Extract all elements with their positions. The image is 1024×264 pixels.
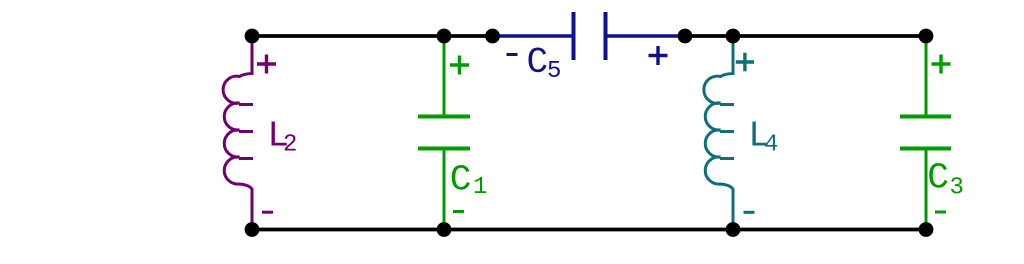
label L4 [748,116,778,159]
node L4 bottom junction [726,222,741,237]
wire top rail left segment (node1 to node C5-left) [252,34,493,38]
polarity plus of C5 [649,46,668,65]
wire top rail right segment (node C5-right to node C3-top) [685,34,926,38]
svg-text:2: 2 [283,132,297,159]
polarity plus of C3 [932,55,951,74]
svg-text:1: 1 [473,174,487,201]
label C3 [927,158,964,202]
node bottom-left junction [245,222,260,237]
label C5 [527,42,562,85]
polarity minus of L4 [744,211,755,214]
svg-text:3: 3 [950,175,964,202]
node C3 bottom junction [919,222,934,237]
inductor L2 [223,38,253,228]
polarity plus of L4 [736,53,754,71]
inductor L4 [704,38,734,228]
wire bottom rail [252,228,926,232]
node L4 top junction [726,29,741,44]
polarity minus of C5 [507,53,518,56]
polarity minus of L2 [262,211,273,214]
polarity minus of C3 [935,211,946,214]
svg-text:C: C [450,160,472,201]
svg-text:5: 5 [547,58,561,85]
polarity plus of C1 [450,56,469,75]
capacitor C3 [900,38,951,228]
polarity plus of L2 [257,55,276,74]
svg-text:C: C [927,158,949,199]
node C5 right junction [678,29,693,44]
svg-text:C: C [527,42,549,83]
node C1 top junction [437,29,452,44]
polarity minus of C1 [453,210,464,213]
label C1 [450,160,488,202]
node top-left junction [245,29,260,44]
node C3 top junction [919,29,934,44]
node C5 left junction [485,29,500,44]
label L2 [267,116,297,159]
svg-text:4: 4 [764,132,778,159]
capacitor C1 [418,38,470,228]
capacitor C5 [493,12,686,60]
node C1 bottom junction [437,222,452,237]
